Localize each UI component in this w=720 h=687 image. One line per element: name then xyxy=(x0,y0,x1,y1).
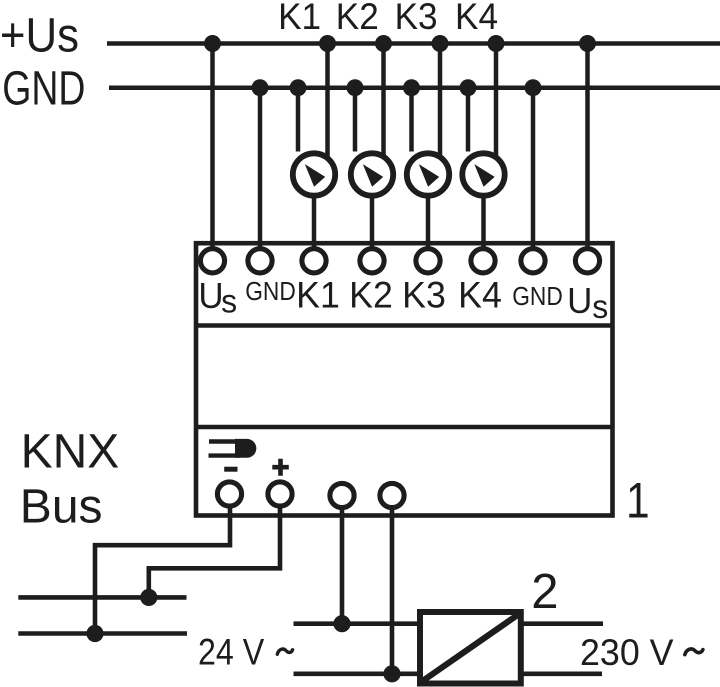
svg-text:s: s xyxy=(221,283,237,320)
plus sign (KNX) xyxy=(272,459,289,476)
junction on GND rail xyxy=(460,79,477,96)
KNX bus-connector symbol top bar xyxy=(209,439,240,443)
wire K3 drive-to-terminal xyxy=(426,196,431,251)
terminal K2 xyxy=(360,249,384,273)
junction on GND rail xyxy=(347,79,364,96)
svg-text:+Us: +Us xyxy=(0,8,79,62)
svg-text:s: s xyxy=(592,289,608,326)
svg-text:K1: K1 xyxy=(278,0,321,37)
terminal GND left xyxy=(248,249,272,273)
device divider lower xyxy=(196,425,613,430)
valve drive M3 triangle xyxy=(419,164,439,187)
svg-text:K3: K3 xyxy=(402,274,446,316)
svg-text:24 V: 24 V xyxy=(198,633,264,674)
wire 24V line upper xyxy=(294,621,421,626)
tilde (24 V) xyxy=(277,649,292,654)
tilde (230 V) xyxy=(685,649,703,655)
wire Us-right drop xyxy=(585,44,590,251)
actuator device box outline xyxy=(196,243,613,515)
wire Us-left drop xyxy=(210,44,215,251)
wire KNX bus line lower xyxy=(18,631,187,636)
svg-text:K2: K2 xyxy=(349,274,393,316)
svg-text:2: 2 xyxy=(531,565,558,619)
svg-text:GND: GND xyxy=(245,278,296,307)
svg-text:230 V: 230 V xyxy=(580,631,674,673)
wire GND-left drop xyxy=(258,88,263,250)
svg-text:U: U xyxy=(567,281,592,322)
valve drive M2 circle xyxy=(351,153,393,195)
terminal 24V a xyxy=(330,483,354,507)
junction 24V lower xyxy=(383,665,400,682)
junction on +Us rail xyxy=(204,35,221,52)
svg-text:GND: GND xyxy=(2,62,85,116)
wire 230V line upper xyxy=(521,621,603,626)
junction on +Us rail xyxy=(319,35,336,52)
terminal KNX minus xyxy=(217,482,241,506)
svg-text:K4: K4 xyxy=(455,0,498,37)
minus sign (KNX) xyxy=(224,467,237,472)
wire KNX plus to bus xyxy=(149,506,280,598)
transformer diagonal xyxy=(423,614,520,681)
wire K2 +Us-side drop xyxy=(381,44,386,158)
junction on +Us rail xyxy=(432,35,449,52)
junction on GND rail xyxy=(252,79,269,96)
wire K1 drive-to-terminal xyxy=(312,196,317,251)
terminal Us right xyxy=(575,249,599,273)
junction on GND rail xyxy=(525,79,542,96)
junction on +Us rail xyxy=(579,35,596,52)
terminal K4 xyxy=(471,249,495,273)
valve drive M1 triangle xyxy=(305,164,325,187)
svg-text:U: U xyxy=(198,276,223,317)
wire K2 drive-to-terminal xyxy=(370,196,375,251)
wire GND-right drop xyxy=(531,88,536,250)
junction on GND rail xyxy=(403,79,420,96)
svg-text:1: 1 xyxy=(626,472,650,528)
wire 24V line lower xyxy=(294,671,421,676)
wire K4 +Us-side drop xyxy=(494,44,499,158)
valve drive M1 circle xyxy=(293,153,335,195)
wire K3 +Us-side drop xyxy=(438,44,443,158)
wire K4 drive-to-terminal xyxy=(481,196,486,251)
valve drive M2 triangle xyxy=(363,164,383,187)
wire K3 GND-side drop xyxy=(409,88,414,152)
KNX bus-connector symbol bottom bar xyxy=(209,453,241,457)
wire K4 GND-side drop xyxy=(466,88,471,152)
device divider upper xyxy=(196,323,613,328)
terminal K3 xyxy=(416,249,440,273)
wire KNX minus to bus xyxy=(95,506,230,634)
junction KNX minus / lower bus line xyxy=(86,625,103,642)
svg-text:K1: K1 xyxy=(296,274,340,316)
svg-text:K3: K3 xyxy=(395,0,438,37)
wire K1 GND-side drop xyxy=(296,88,301,152)
valve drive M4 circle xyxy=(462,153,504,195)
terminal Us left xyxy=(200,249,224,273)
wire K1 +Us-side drop xyxy=(325,44,330,158)
wire K2 GND-side drop xyxy=(353,88,358,152)
junction on +Us rail xyxy=(375,35,392,52)
svg-text:K4: K4 xyxy=(458,274,502,316)
wire GND rail xyxy=(109,85,720,90)
junction on +Us rail xyxy=(488,35,505,52)
terminal 24V b xyxy=(380,483,404,507)
junction on GND rail xyxy=(290,79,307,96)
transformer box xyxy=(420,612,521,684)
svg-text:Bus: Bus xyxy=(20,481,103,534)
valve drive M4 triangle xyxy=(474,164,494,187)
terminal GND right xyxy=(521,249,545,273)
wire 24V terminal a drop xyxy=(340,507,345,624)
svg-text:KNX: KNX xyxy=(21,425,120,478)
terminal K1 xyxy=(302,249,326,273)
svg-text:GND: GND xyxy=(512,283,563,312)
junction 24V upper xyxy=(333,615,350,632)
junction KNX plus / upper bus line xyxy=(140,589,157,606)
valve drive M3 circle xyxy=(407,153,449,195)
svg-text:K2: K2 xyxy=(336,0,379,37)
wire KNX bus line upper xyxy=(18,595,186,600)
wire 24V terminal b drop xyxy=(390,507,395,674)
KNX bus-connector symbol blob xyxy=(235,439,256,458)
terminal KNX plus xyxy=(268,482,292,506)
wire 230V line lower xyxy=(521,671,602,676)
wire +Us rail xyxy=(107,41,720,46)
